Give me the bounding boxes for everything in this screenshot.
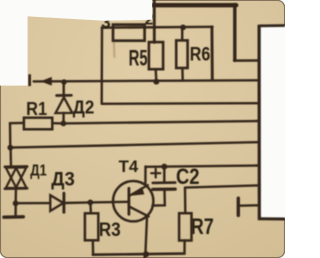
wire: R6 top riser: [181, 28, 183, 41]
white mask top strip: [28, 0, 153, 21]
svg-text:C2: C2: [176, 164, 200, 189]
svg-text:R5: R5: [129, 46, 148, 71]
wire: top-right vertical drop of hook: [233, 5, 236, 61]
node: D1 bottom junction: [13, 200, 19, 206]
wire: R5 bottom riser: [154, 69, 157, 79]
node: junction of R6 riser on W1: [180, 25, 186, 31]
wire: drop from rail to page edge: [143, 255, 146, 258]
wire: thick top bus from terminal-2 area to top-right corner hook: [150, 3, 236, 7]
diac D1 top bar: [5, 165, 27, 168]
svg-text:R1: R1: [26, 98, 47, 119]
wire W1: horizontal from terminal 3 corner to right drop: [102, 26, 213, 29]
terminal bar at bottom left: [4, 215, 23, 219]
wire: riser from line C down to D1: [9, 149, 12, 167]
wire: R1 left lead and drop: [10, 123, 24, 148]
wire: stub below D1 junction: [14, 204, 16, 216]
transistor T4 circle: [113, 181, 153, 221]
wire: R7 bottom riser: [183, 241, 186, 254]
wire: bus line C to white-figure border: [10, 142, 257, 147]
node: junction of R5 bottom on W2: [153, 79, 159, 85]
faint ink streak under R4 box: [113, 42, 116, 57]
wire: R3 top riser: [89, 204, 92, 214]
transistor T4 base bar: [127, 188, 130, 214]
wire W2: terminal 1 horizontal rail: [34, 80, 258, 81]
diac D1 upper triangle: [6, 167, 27, 187]
resistor R6: [176, 40, 187, 68]
resistor R7: [179, 213, 191, 240]
node: R3 top junction: [87, 200, 93, 206]
svg-text:Д1: Д1: [30, 163, 47, 180]
wire: T4 collector down to rail: [145, 217, 147, 254]
wire: R1 right lead: [52, 122, 63, 125]
diode D2 triangle: [56, 97, 73, 113]
diac D1 lower triangle: [6, 168, 27, 188]
svg-text:Д2: Д2: [73, 97, 95, 117]
resistor R1: [24, 118, 52, 130]
terminal bar bottom right: [237, 198, 240, 215]
node: D2/R1 junction on line B: [61, 121, 67, 127]
wire: R7 top riser: [184, 188, 187, 214]
white mask right figure: [260, 25, 286, 218]
wire: R3 bottom riser: [92, 240, 95, 254]
capacitor C2 top plate: [153, 181, 175, 184]
wire: terminal 2 vertical into R5: [153, 0, 156, 43]
diode D3 cathode bar: [62, 193, 65, 212]
wire: right drop of W1 down to W2: [210, 27, 213, 80]
diac D1 bottom bar: [5, 187, 27, 190]
border top of white figure: [259, 24, 285, 27]
diode D2 riser from W2: [63, 82, 65, 95]
wire: D1 junction to D3 anode: [16, 202, 51, 204]
wire: from R7 top to white-figure border: [185, 185, 258, 187]
node: junction of D2 on W2: [61, 79, 67, 85]
resistor R3: [85, 213, 98, 240]
resistor R5: [149, 42, 163, 69]
wire: bus line D to white-figure border: [146, 166, 258, 167]
wire: R6 bottom riser: [181, 68, 184, 80]
wire: D1 bottom riser to junction: [14, 190, 17, 202]
wire: bottom rail: [93, 254, 184, 255]
wire: D2 anode riser to line B: [62, 113, 64, 121]
wire: T4 emitter up to line D: [144, 167, 147, 185]
resistor R4 (box under W1, label hidden by mask): [113, 25, 145, 41]
node: C2 junction on line D: [161, 164, 167, 170]
wire: D3 to R3 junction: [65, 201, 91, 204]
white mask top-left: [0, 0, 28, 86]
svg-text:Д3: Д3: [51, 169, 75, 190]
plus sign of C2: [151, 169, 160, 178]
wire: hook to white-figure border at y=60: [234, 59, 259, 62]
diode D3 triangle: [50, 195, 63, 211]
border left of white figure: [258, 25, 261, 220]
node: emitter junction on bottom rail: [143, 251, 149, 257]
border bottom of white figure: [258, 217, 285, 220]
label 1 (terminal): [28, 74, 31, 86]
svg-text:T4: T4: [119, 158, 139, 176]
wire: C2 top riser: [163, 167, 165, 182]
wire: bus line A to white-figure border: [102, 102, 258, 105]
transistor T4 emitter line with arrow: [130, 185, 148, 196]
arrow head on terminal 1 wire: [42, 78, 52, 85]
svg-text:R6: R6: [190, 43, 211, 65]
wire: bus line B to white-figure border: [63, 121, 257, 123]
capacitor C2 bottom plate: [153, 188, 175, 191]
svg-text:R3: R3: [99, 220, 121, 241]
transistor T4 collector line: [130, 207, 149, 217]
svg-text:R7: R7: [191, 214, 214, 239]
diode D2 cathode bar: [57, 94, 72, 97]
wire: terminal 3 vertical down to line A corner: [100, 27, 103, 103]
wire: base wire junction to T4: [90, 201, 129, 204]
wire: terminal to white-figure border: [240, 204, 258, 207]
wire: C2 bottom riser and link to T4: [152, 191, 164, 206]
node: junction on line C left end: [7, 145, 13, 151]
